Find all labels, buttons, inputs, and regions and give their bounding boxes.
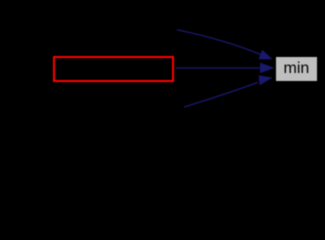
svg-text:min: min <box>284 60 310 77</box>
